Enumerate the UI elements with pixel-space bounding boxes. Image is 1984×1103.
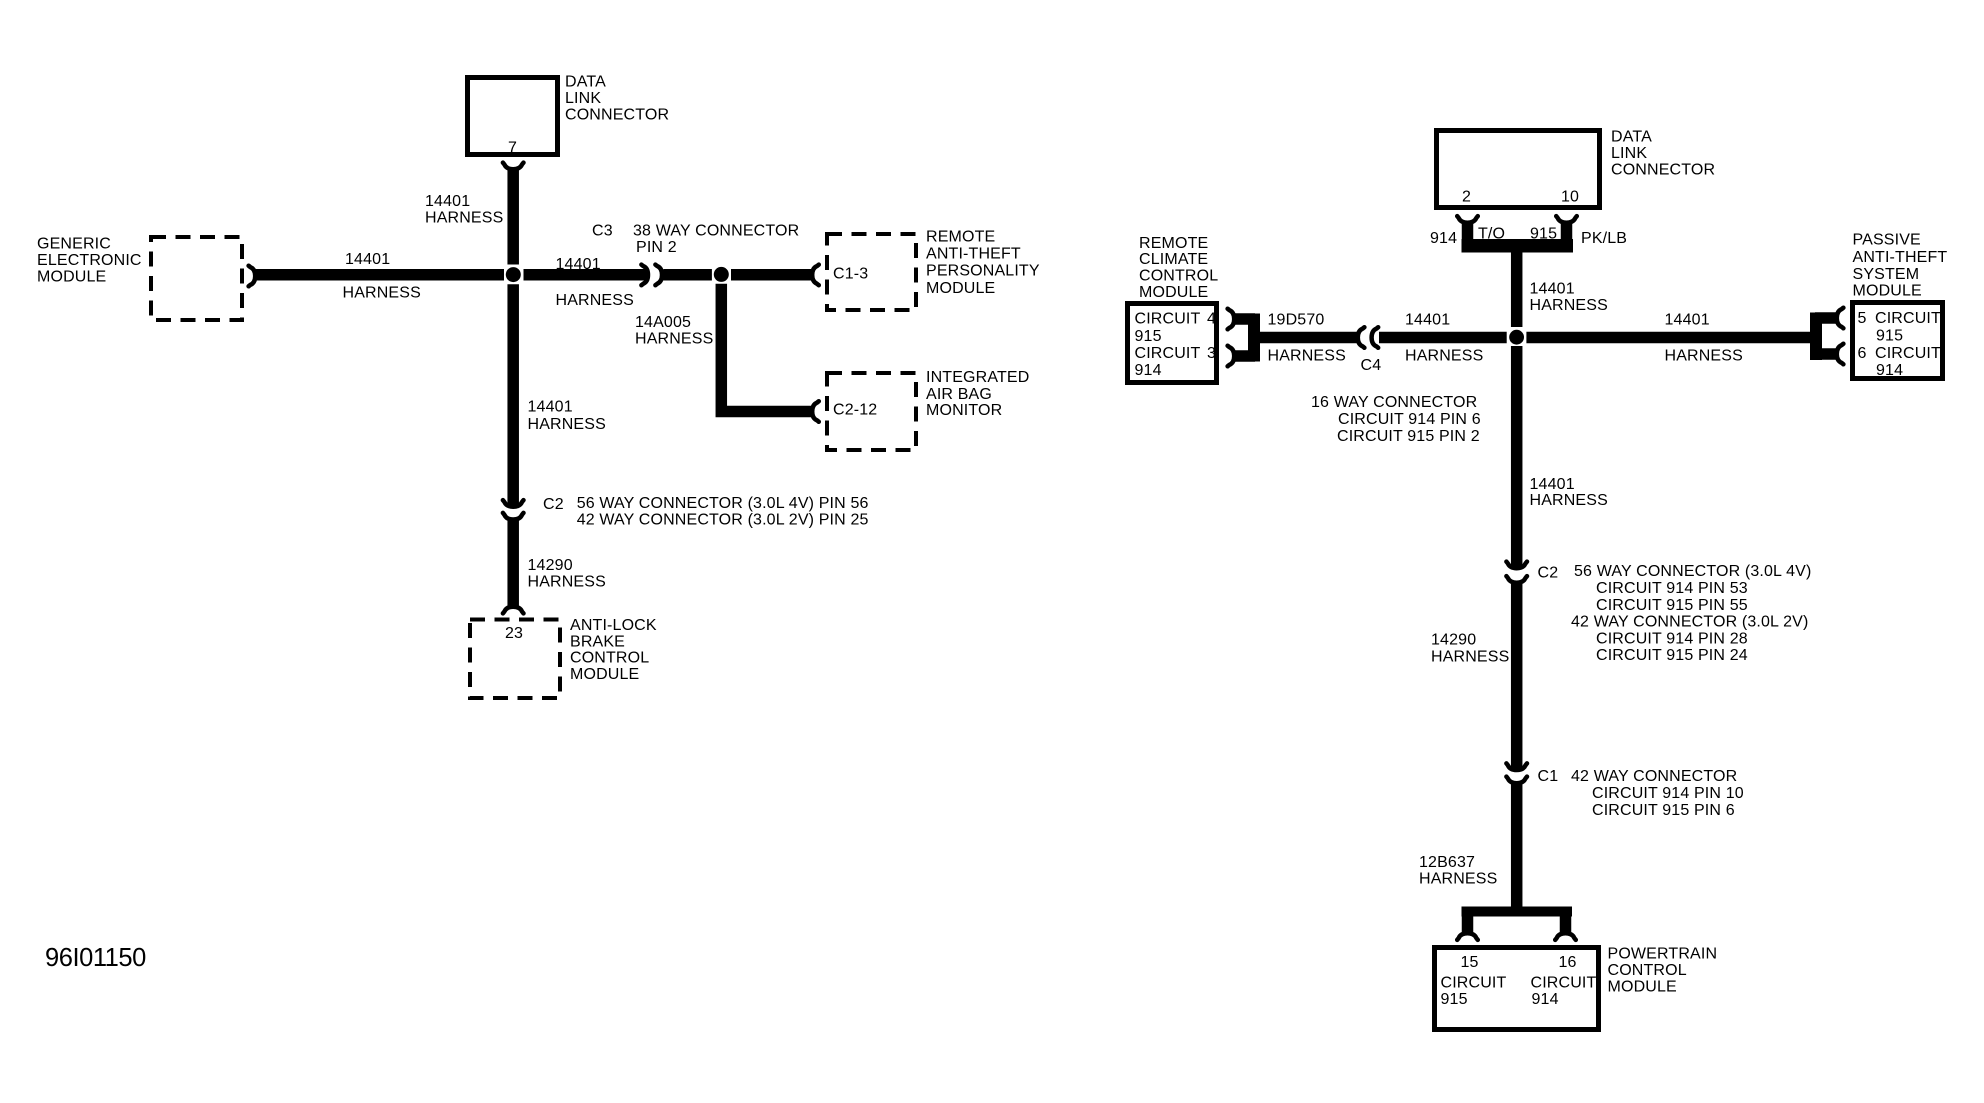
connector cup at C2-12 box	[812, 401, 819, 422]
svg-text:ANTI-LOCK: ANTI-LOCK	[570, 617, 657, 634]
svg-text:CIRCUIT 914 PIN 28: CIRCUIT 914 PIN 28	[1596, 630, 1748, 647]
svg-text:15: 15	[1461, 954, 1479, 971]
label: REMOTE ANTI-THEFT PERSONALITY MODULE	[926, 229, 1040, 297]
label: 14401 HARNESS (upper right vertical)	[1530, 281, 1608, 315]
svg-text:C2: C2	[1538, 565, 1559, 582]
svg-text:915: 915	[1876, 328, 1903, 345]
svg-text:C4: C4	[1361, 357, 1382, 374]
wire: DLC down to junction A	[507, 168, 519, 265]
svg-text:DATA: DATA	[1611, 129, 1652, 146]
wire: pin 2 stub down to bus bar	[1462, 223, 1474, 247]
svg-text:14401: 14401	[425, 193, 470, 210]
wire: RCCM to connector C4	[1254, 332, 1358, 344]
svg-text:PK/LB: PK/LB	[1581, 230, 1627, 247]
svg-text:915: 915	[1135, 328, 1162, 345]
svg-text:SYSTEM: SYSTEM	[1853, 266, 1920, 283]
svg-text:96I01150: 96I01150	[45, 944, 146, 972]
svg-text:23: 23	[505, 625, 523, 642]
label: C3 38 WAY CONNECTOR PIN 2	[592, 223, 799, 257]
svg-text:ANTI-THEFT: ANTI-THEFT	[1853, 249, 1948, 266]
connector cup under right DLC pin 2	[1457, 216, 1478, 223]
svg-text:PIN 2: PIN 2	[636, 239, 677, 256]
svg-text:REMOTE: REMOTE	[926, 229, 995, 246]
label: DATA LINK CONNECTOR (right)	[1611, 129, 1715, 179]
svg-text:CONNECTOR: CONNECTOR	[565, 107, 669, 124]
svg-text:GENERIC: GENERIC	[37, 236, 111, 253]
label: 14401 HARNESS (below junction C)	[1530, 476, 1608, 509]
svg-text:HARNESS: HARNESS	[343, 285, 421, 302]
svg-text:MODULE: MODULE	[926, 280, 995, 297]
svg-text:CLIMATE: CLIMATE	[1139, 251, 1208, 268]
label: GENERIC ELECTRONIC MODULE	[37, 236, 142, 286]
in-line connector C3 (two half-cups)	[641, 265, 662, 286]
label: 19D570 HARNESS	[1268, 312, 1346, 365]
svg-text:BRAKE: BRAKE	[570, 633, 625, 650]
svg-text:42 WAY CONNECTOR (3.0L 2V) PIN: 42 WAY CONNECTOR (3.0L 2V) PIN 25	[577, 511, 869, 528]
connector cup at RCCM circuit 4	[1228, 309, 1235, 330]
svg-text:14401: 14401	[528, 399, 573, 416]
in-line connector C2 (left diagram, two half-cups)	[503, 500, 524, 519]
label: PASSIVE ANTI-THEFT SYSTEM MODULE	[1853, 232, 1948, 300]
svg-text:AIR BAG: AIR BAG	[926, 386, 992, 403]
in-line connector C2 (right diagram, two half-cups)	[1506, 562, 1527, 583]
svg-text:MODULE: MODULE	[570, 666, 639, 683]
svg-text:HARNESS: HARNESS	[1419, 871, 1497, 888]
svg-text:7: 7	[508, 140, 517, 157]
wire: C2 down to C1 (right diagram)	[1511, 582, 1523, 771]
svg-text:16 WAY CONNECTOR: 16 WAY CONNECTOR	[1311, 394, 1477, 411]
label: INTEGRATED AIR BAG MONITOR	[926, 369, 1029, 419]
svg-text:HARNESS: HARNESS	[1431, 648, 1509, 665]
label: POWERTRAIN CONTROL MODULE	[1608, 946, 1718, 996]
svg-text:C1-3: C1-3	[833, 266, 868, 283]
svg-text:LINK: LINK	[1611, 145, 1647, 162]
label: 14A005 HARNESS	[635, 314, 713, 348]
label: 14401 HARNESS (left horizontal segment)	[343, 251, 421, 302]
wire: junction C to PATS module	[1526, 332, 1810, 344]
connector cup at C1-3 box	[812, 265, 819, 286]
label: C2 56/42 WAY CONNECTOR (left diagram)	[543, 495, 869, 528]
svg-text:CIRCUIT 915 PIN 6: CIRCUIT 915 PIN 6	[1592, 802, 1735, 819]
svg-text:ANTI-THEFT: ANTI-THEFT	[926, 246, 1021, 263]
connector cup at GEM box right	[249, 266, 256, 287]
data link connector box (left)	[468, 78, 558, 157]
svg-text:MODULE: MODULE	[1853, 283, 1922, 300]
svg-text:HARNESS: HARNESS	[1405, 348, 1483, 365]
svg-text:C2: C2	[543, 496, 564, 513]
wire: PATS split bar	[1810, 313, 1822, 361]
generic electronic module dashed box	[151, 237, 242, 320]
connector cup under left DLC box	[503, 163, 524, 170]
svg-text:914: 914	[1876, 362, 1903, 379]
svg-text:914: 914	[1430, 230, 1457, 247]
svg-text:14290: 14290	[1431, 631, 1476, 648]
svg-text:56 WAY CONNECTOR (3.0L 4V): 56 WAY CONNECTOR (3.0L 4V)	[1574, 563, 1811, 580]
label: 915 PK/LB	[1530, 226, 1627, 248]
svg-text:14401: 14401	[1530, 281, 1575, 298]
svg-text:CIRCUIT 914 PIN 10: CIRCUIT 914 PIN 10	[1592, 785, 1744, 802]
svg-text:C3: C3	[592, 223, 613, 240]
svg-text:14401: 14401	[1665, 312, 1710, 329]
label: C2 connector details (right diagram)	[1571, 563, 1811, 664]
svg-text:19D570: 19D570	[1268, 312, 1325, 329]
svg-text:3: 3	[1207, 345, 1216, 362]
svg-text:HARNESS: HARNESS	[528, 416, 606, 433]
svg-text:5: 5	[1858, 310, 1867, 327]
remote climate control module box	[1128, 304, 1217, 383]
svg-text:914: 914	[1532, 991, 1559, 1008]
connector cup above PCM pin 15	[1457, 933, 1478, 940]
svg-text:2: 2	[1462, 189, 1471, 206]
svg-text:HARNESS: HARNESS	[1530, 492, 1608, 509]
wire: PCM pin 15 stub	[1462, 911, 1474, 934]
svg-text:42 WAY CONNECTOR (3.0L 2V): 42 WAY CONNECTOR (3.0L 2V)	[1571, 614, 1808, 631]
svg-text:CIRCUIT: CIRCUIT	[1531, 975, 1597, 992]
wire: C2 down to ABS module	[507, 519, 519, 607]
svg-text:HARNESS: HARNESS	[528, 573, 606, 590]
data link connector box (right) with pins 2 and 10	[1437, 131, 1600, 208]
wire: PATS pin 6 stub	[1815, 348, 1837, 360]
svg-text:CIRCUIT: CIRCUIT	[1135, 311, 1201, 328]
wire: PATS pin 5 stub	[1815, 312, 1837, 324]
svg-text:ELECTRONIC: ELECTRONIC	[37, 252, 142, 269]
svg-text:CONNECTOR: CONNECTOR	[1611, 162, 1715, 179]
label: 14401 HARNESS (middle horizontal segment)	[556, 256, 634, 309]
connector cup at PATS pin 6	[1837, 344, 1844, 365]
label: 14290 HARNESS (right diagram)	[1431, 631, 1509, 665]
svg-text:14401: 14401	[345, 251, 390, 268]
svg-text:14401: 14401	[1405, 312, 1450, 329]
label: 14401 HARNESS (right of C4)	[1405, 312, 1483, 365]
svg-text:CIRCUIT: CIRCUIT	[1875, 310, 1941, 327]
svg-text:C2-12: C2-12	[833, 402, 877, 419]
svg-text:10: 10	[1561, 189, 1579, 206]
svg-text:PASSIVE: PASSIVE	[1853, 232, 1921, 249]
svg-text:14290: 14290	[528, 557, 573, 574]
svg-text:14A005: 14A005	[635, 314, 691, 331]
label: REMOTE CLIMATE CONTROL MODULE	[1139, 235, 1218, 301]
svg-text:REMOTE: REMOTE	[1139, 235, 1208, 252]
svg-text:CIRCUIT: CIRCUIT	[1441, 975, 1507, 992]
wire: PCM pin 16 stub	[1560, 911, 1572, 934]
svg-text:PERSONALITY: PERSONALITY	[926, 263, 1040, 280]
svg-text:MODULE: MODULE	[37, 269, 106, 286]
svg-text:CONTROL: CONTROL	[1608, 962, 1687, 979]
svg-text:38 WAY CONNECTOR: 38 WAY CONNECTOR	[633, 223, 799, 240]
wire: junction B to C1-3 cup	[731, 269, 812, 281]
svg-text:14401: 14401	[1530, 476, 1575, 493]
anti-lock brake control module dashed box with pin 23	[470, 620, 560, 699]
label: 14401 HARNESS (top vertical wire)	[425, 193, 503, 227]
svg-text:4: 4	[1207, 311, 1216, 328]
in-line connector C4 (two half-cups)	[1358, 327, 1378, 348]
label: ANTI-LOCK BRAKE CONTROL MODULE	[570, 617, 657, 683]
wire: RCCM merge bar	[1248, 314, 1260, 362]
wire: junction A down to connector C2	[507, 284, 519, 507]
svg-text:HARNESS: HARNESS	[1530, 297, 1608, 314]
wire: bus bar under right DLC	[1462, 239, 1574, 253]
connector cup under right DLC pin 10	[1556, 216, 1577, 223]
connector cup at RCCM circuit 3	[1228, 346, 1235, 367]
svg-text:CIRCUIT 915 PIN 2: CIRCUIT 915 PIN 2	[1337, 428, 1480, 445]
wire: junction B down and right to C2-12	[721, 284, 812, 412]
svg-text:DATA: DATA	[565, 74, 606, 91]
svg-text:LINK: LINK	[565, 90, 601, 107]
wire: RCCM circuit 4 stub	[1234, 313, 1255, 325]
junction A dot	[506, 267, 521, 282]
connector cup at PATS pin 5	[1837, 308, 1844, 329]
wire: pin 10 stub down to bus bar	[1561, 223, 1573, 247]
svg-text:914: 914	[1135, 362, 1162, 379]
wire: C4 to junction C	[1379, 332, 1507, 344]
wire: junction A to connector C3	[524, 269, 648, 281]
in-line connector C1 (two half-cups)	[1506, 763, 1527, 783]
wire: GEM to connector C3	[255, 269, 504, 281]
svg-text:CIRCUIT 914 PIN 6: CIRCUIT 914 PIN 6	[1338, 411, 1481, 428]
svg-text:915: 915	[1441, 991, 1468, 1008]
svg-text:CIRCUIT 914 PIN 53: CIRCUIT 914 PIN 53	[1596, 580, 1748, 597]
svg-text:12B637: 12B637	[1419, 854, 1475, 871]
connector cup above ABS box	[503, 607, 524, 614]
svg-text:HARNESS: HARNESS	[425, 210, 503, 227]
wire: RCCM circuit 3 stub	[1234, 350, 1255, 362]
svg-text:MONITOR: MONITOR	[926, 402, 1002, 419]
label: C1 connector details	[1571, 768, 1744, 819]
svg-text:MODULE: MODULE	[1139, 284, 1208, 301]
svg-text:HARNESS: HARNESS	[1665, 348, 1743, 365]
passive anti-theft system module box	[1853, 303, 1943, 380]
integrated air bag monitor dashed box with C2-12	[827, 373, 916, 450]
svg-text:POWERTRAIN: POWERTRAIN	[1608, 946, 1718, 963]
svg-text:HARNESS: HARNESS	[635, 331, 713, 348]
svg-text:HARNESS: HARNESS	[1268, 348, 1346, 365]
label: 14401 HARNESS (lower vertical wire)	[528, 399, 606, 434]
label: 12B637 HARNESS	[1419, 854, 1497, 888]
svg-text:CIRCUIT: CIRCUIT	[1135, 345, 1201, 362]
svg-text:CONTROL: CONTROL	[570, 650, 649, 667]
label: 16 WAY CONNECTOR CIRCUIT 914 PIN 6 CIRCUIT 915 PIN 2	[1311, 394, 1481, 445]
remote anti-theft personality module dashed box with C1-3	[827, 234, 916, 310]
label: 14401 HARNESS (to PATS)	[1665, 312, 1743, 365]
wire: C3 to junction B and on to C1-3 cup	[664, 269, 712, 281]
wire: PCM split bar	[1462, 907, 1573, 917]
svg-text:6: 6	[1858, 345, 1867, 362]
powertrain control module box with pins 15 and 16	[1435, 948, 1599, 1030]
svg-text:INTEGRATED: INTEGRATED	[926, 369, 1029, 386]
svg-text:CIRCUIT 915 PIN 24: CIRCUIT 915 PIN 24	[1596, 647, 1748, 664]
svg-text:42 WAY CONNECTOR: 42 WAY CONNECTOR	[1571, 768, 1737, 785]
svg-text:CIRCUIT: CIRCUIT	[1875, 345, 1941, 362]
svg-text:MODULE: MODULE	[1608, 979, 1677, 996]
svg-text:C1: C1	[1538, 768, 1559, 785]
junction B dot	[714, 267, 729, 282]
svg-text:16: 16	[1559, 954, 1577, 971]
svg-text:56 WAY CONNECTOR (3.0L 4V) PIN: 56 WAY CONNECTOR (3.0L 4V) PIN 56	[577, 495, 869, 512]
connector cup above PCM pin 16	[1555, 933, 1576, 940]
label: DATA LINK CONNECTOR (left)	[565, 74, 669, 124]
svg-text:T/O: T/O	[1478, 226, 1505, 243]
wire: C1 down to PCM split	[1511, 783, 1523, 910]
wire: bus bar down to junction C	[1511, 251, 1523, 327]
wire: junction C down to connector C2 (right)	[1511, 346, 1523, 569]
svg-text:HARNESS: HARNESS	[556, 292, 634, 309]
svg-text:CONTROL: CONTROL	[1139, 268, 1218, 285]
svg-text:CIRCUIT 915 PIN 55: CIRCUIT 915 PIN 55	[1596, 597, 1748, 614]
svg-text:915: 915	[1530, 226, 1557, 243]
junction C dot	[1509, 330, 1524, 345]
label: 14290 HARNESS (left diagram)	[528, 557, 606, 590]
label: 914 T/O	[1430, 226, 1505, 248]
